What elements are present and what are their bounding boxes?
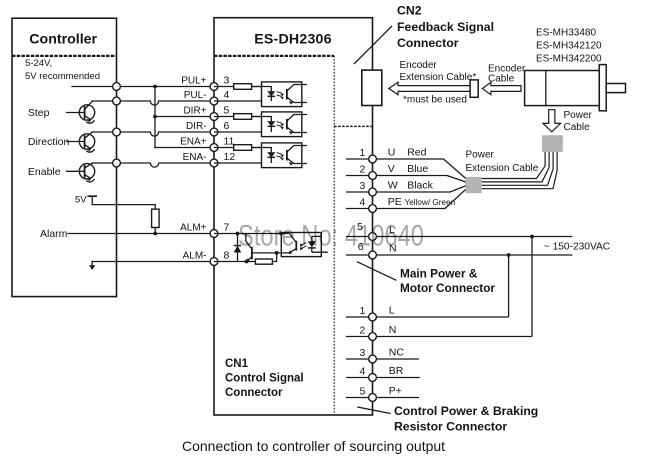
encoder inline connector <box>470 80 478 97</box>
motor body <box>525 71 600 106</box>
svg-text:DIR+: DIR+ <box>183 106 206 117</box>
wire W pin3 <box>346 186 466 192</box>
CN2 pointer line <box>354 26 392 64</box>
node pullup junction on ALM+ <box>153 232 157 236</box>
wire ALM- row <box>92 261 214 263</box>
svg-text:Resistor Connector: Resistor Connector <box>394 420 507 434</box>
right edge pin circles (main power) <box>369 155 377 259</box>
svg-text:ES-MH33480: ES-MH33480 <box>536 28 596 39</box>
power extension cable gray box <box>466 177 482 193</box>
wire 5V pullup branch <box>92 196 155 233</box>
svg-text:NC: NC <box>389 347 405 359</box>
svg-text:3: 3 <box>224 75 230 87</box>
svg-text:U: U <box>388 147 396 159</box>
wire supply distribution vertical <box>154 87 156 148</box>
emitter arrowheads <box>87 119 91 123</box>
node opto input <box>279 232 283 236</box>
svg-text:3: 3 <box>360 180 366 192</box>
svg-text:1: 1 <box>360 305 366 317</box>
node mains N junction <box>507 253 511 257</box>
inner dotted vertical divider <box>333 56 335 415</box>
wire PE pin4 <box>346 189 466 208</box>
resistor R2 on PUL+ row <box>234 84 252 90</box>
svg-text:Cable: Cable <box>564 122 591 133</box>
svg-text:Direction: Direction <box>28 136 70 148</box>
wire mains vertical to bottom L <box>508 255 510 317</box>
svg-text:N: N <box>389 324 397 336</box>
svg-text:Motor Connector: Motor Connector <box>400 281 495 295</box>
svg-text:Step: Step <box>28 107 50 119</box>
motor front cap divider <box>545 71 547 106</box>
svg-text:8: 8 <box>224 250 230 262</box>
svg-text:ES-MH342120: ES-MH342120 <box>536 41 602 52</box>
svg-text:7: 7 <box>224 222 230 234</box>
svg-text:Control Power & Braking: Control Power & Braking <box>394 404 538 418</box>
svg-text:ES-DH2306: ES-DH2306 <box>254 32 332 48</box>
svg-text:Extension Cable: Extension Cable <box>466 163 539 174</box>
svg-text:Main Power &: Main Power & <box>400 267 478 281</box>
svg-text:4: 4 <box>360 197 366 209</box>
svg-text:Blue: Blue <box>407 163 428 175</box>
svg-text:5V recommended: 5V recommended <box>25 71 100 82</box>
svg-text:Store No: 410640: Store No: 410640 <box>238 220 424 253</box>
wire DIR+ row <box>155 116 214 118</box>
svg-text:CN1: CN1 <box>225 358 249 370</box>
wire N pin6 mains <box>346 254 572 256</box>
svg-text:5V: 5V <box>75 195 87 206</box>
controller title separator <box>12 55 117 57</box>
svg-text:P+: P+ <box>389 385 402 397</box>
5V supply bar <box>88 195 96 197</box>
optocoupler U1 (PUL) <box>214 82 307 107</box>
wire bottom P+ pin5 <box>346 397 419 399</box>
CN2 connector rect <box>362 70 382 105</box>
node supply junction on DIR+ <box>153 115 157 119</box>
node mains L junction <box>530 235 534 239</box>
ground arrowhead ALM- <box>89 265 95 270</box>
wire DIR- row with hop <box>92 132 214 136</box>
diode D1 clamp <box>237 234 239 262</box>
controller edge connector circles <box>113 83 121 167</box>
svg-text:Red: Red <box>407 147 426 159</box>
svg-text:5-24V,: 5-24V, <box>25 58 52 69</box>
svg-text:12: 12 <box>224 151 236 163</box>
svg-text:4: 4 <box>360 366 366 378</box>
svg-text:5: 5 <box>360 386 366 398</box>
wire bottom N pin2 <box>346 336 532 338</box>
wire L pin5 mains <box>346 236 572 238</box>
power cable leads <box>545 152 557 160</box>
svg-text:ALM+: ALM+ <box>180 223 207 234</box>
svg-text:ALM-: ALM- <box>183 251 207 262</box>
svg-text:ENA-: ENA- <box>183 152 207 163</box>
node supply junction on PUL+ <box>153 85 157 89</box>
alarm output circuit <box>214 233 328 265</box>
svg-text:3: 3 <box>360 347 366 359</box>
svg-text:CN2: CN2 <box>397 4 422 18</box>
svg-text:L: L <box>389 305 395 317</box>
resistor R3 on DIR+ row <box>234 114 252 120</box>
svg-text:Cable: Cable <box>488 74 515 85</box>
node D1 top <box>236 232 240 236</box>
svg-text:6: 6 <box>224 120 230 132</box>
transistor Q1 Step <box>67 102 95 124</box>
svg-text:PE: PE <box>388 196 402 208</box>
svg-text:*must be used: *must be used <box>403 95 467 106</box>
svg-text:Enable: Enable <box>28 166 61 178</box>
ground arrow ALM- <box>91 262 93 266</box>
svg-text:Encoder: Encoder <box>400 60 438 71</box>
transistor Q4 alarm driver <box>246 234 252 249</box>
drive left pin circles <box>210 83 218 266</box>
svg-text:Connector: Connector <box>225 387 283 399</box>
motor shaft <box>606 84 625 93</box>
svg-text:Connector: Connector <box>397 36 459 50</box>
svg-text:Feedback Signal: Feedback Signal <box>397 20 494 34</box>
power cable connector gray box <box>542 135 563 152</box>
controller box <box>12 18 117 296</box>
encoder extension cable arrow <box>389 82 470 94</box>
svg-text:4: 4 <box>224 89 230 101</box>
svg-text:BR: BR <box>389 365 404 377</box>
motor flange <box>599 65 606 111</box>
wire ENA+ row <box>155 147 214 149</box>
pointer line main power label <box>357 262 396 281</box>
main power & motor connector wiring <box>346 159 572 398</box>
wire U pin1 <box>346 159 466 179</box>
svg-text:W: W <box>388 180 398 192</box>
wire base line <box>252 252 289 254</box>
wire bottom BR pin4 <box>346 377 420 379</box>
svg-text:2: 2 <box>360 325 366 337</box>
svg-text:Power: Power <box>564 110 593 121</box>
svg-text:Power: Power <box>466 150 495 161</box>
transistor Q2 Direction <box>67 132 95 152</box>
svg-text:PUL+: PUL+ <box>181 76 206 87</box>
wire mains vertical to bottom N <box>531 237 533 337</box>
node Q4 emitter <box>245 260 249 264</box>
wire PUL- row with hop <box>92 101 214 105</box>
pointer line control power label <box>357 407 390 414</box>
svg-text:1: 1 <box>360 147 366 159</box>
svg-text:Alarm: Alarm <box>40 228 68 240</box>
optocoupler U2 (DIR) <box>214 112 307 137</box>
svg-text:V: V <box>388 163 395 175</box>
svg-text:ENA+: ENA+ <box>180 137 207 148</box>
svg-text:5: 5 <box>224 105 230 117</box>
drive box ES-DH2306 <box>214 18 373 415</box>
optocoupler U3 (ENA) <box>214 143 307 168</box>
encoder cable arrow <box>482 82 521 94</box>
svg-text:DIR-: DIR- <box>186 121 207 132</box>
wire supply 5-24V row <box>72 86 214 88</box>
power cable down arrow <box>543 110 561 132</box>
wire V pin2 <box>346 176 466 183</box>
wire ALM+ internal <box>214 233 290 235</box>
resistor R4 on ENA+ row <box>234 145 252 151</box>
svg-text:PUL-: PUL- <box>184 90 207 101</box>
svg-text:ES-MH342200: ES-MH342200 <box>536 54 602 65</box>
wire bottom L pin1 <box>346 316 509 318</box>
svg-text:Black: Black <box>407 180 433 192</box>
wire ALM- internal <box>214 253 277 262</box>
node base-resistor <box>275 251 279 255</box>
svg-text:Connection to controller of so: Connection to controller of sourcing out… <box>182 438 445 454</box>
svg-text:2: 2 <box>360 164 366 176</box>
dashed separator under CN2 area <box>334 125 372 127</box>
svg-text:~ 150-230VAC: ~ 150-230VAC <box>544 242 610 253</box>
drive title separator <box>214 55 334 57</box>
wire bottom NC pin3 <box>346 358 419 360</box>
wire ALM+ row <box>68 233 214 235</box>
wire ENA- row with hop <box>92 163 214 167</box>
svg-text:Controller: Controller <box>29 32 97 48</box>
svg-text:Control Signal: Control Signal <box>225 373 304 385</box>
resistor R5 alarm <box>255 259 272 264</box>
extension cable wires to motor <box>482 160 557 189</box>
right edge pin circles (control power) <box>369 313 377 401</box>
transistor Q3 Enable <box>67 163 95 182</box>
resistor R1 pullup 5V <box>152 209 160 227</box>
svg-text:Extension Cable*: Extension Cable* <box>400 72 477 83</box>
svg-text:Yellow/ Green: Yellow/ Green <box>405 198 456 207</box>
svg-text:11: 11 <box>224 136 235 148</box>
optocoupler U4 (ALM) <box>281 233 321 257</box>
